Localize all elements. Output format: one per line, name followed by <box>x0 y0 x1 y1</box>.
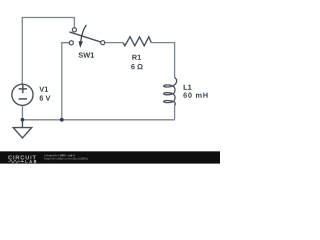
resistor R1 zigzag body <box>123 37 151 46</box>
junction node dot at V1 / ground / rail <box>21 118 25 122</box>
switch SW1 lever <box>69 32 101 42</box>
label V1 value 6 V <box>40 95 51 100</box>
switch SW1 pole terminal circle (right) <box>101 41 105 45</box>
voltage source V1 circle body <box>12 84 33 105</box>
voltage source V1 minus sign <box>19 98 27 100</box>
switch SW1 throw A terminal circle (top) <box>72 28 76 32</box>
wire: switch SW1 throw B lead down to bottom rail <box>62 43 70 120</box>
switch SW1 actuation arrow shaft <box>81 25 87 42</box>
watermark bar <box>0 152 220 164</box>
logo arrow glyph <box>22 160 25 162</box>
label L1 value 60 mH <box>183 93 207 98</box>
label R1 reference <box>132 55 141 60</box>
switch SW1 actuation arrow head <box>79 41 83 48</box>
junction node dot at switch branch on bottom rail <box>60 118 64 122</box>
watermark author name <box>45 154 59 156</box>
label L1 reference <box>184 85 192 90</box>
watermark bar top border <box>0 150 220 153</box>
switch SW1 throw B terminal circle (left) <box>69 41 73 45</box>
logo LAB text <box>26 160 37 163</box>
label SW1 reference <box>79 52 95 57</box>
watermark url <box>45 157 89 160</box>
logo resistor zigzag <box>8 160 21 163</box>
wire: top rail from V1 up and over to switch SW1 throw A <box>22 18 74 85</box>
wire: resistor R1 right lead to top-right corner down to inductor L1 <box>151 43 174 78</box>
inductor L1 coil body <box>164 78 177 106</box>
voltage source V1 plus sign <box>19 85 27 93</box>
ground symbol <box>13 120 32 138</box>
wire: inductor L1 bottom lead <box>174 106 176 120</box>
label R1 value 6 ohm <box>131 64 143 69</box>
wire: switch SW1 pole to resistor R1 left lead <box>105 42 123 44</box>
watermark schematic title <box>60 154 75 156</box>
logo CIRCUIT text <box>8 155 36 159</box>
wire: V1 bottom lead down to ground node <box>21 105 23 119</box>
label V1 reference <box>39 87 48 92</box>
wire: bottom ground rail <box>22 119 174 121</box>
